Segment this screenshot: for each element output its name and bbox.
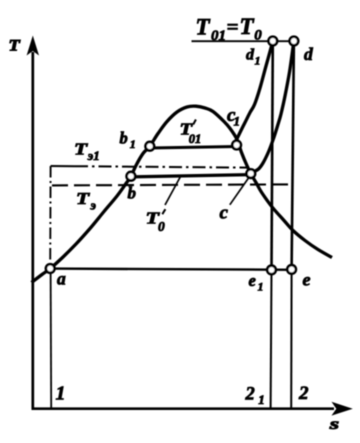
svg-text:1: 1 — [255, 54, 261, 68]
svg-text:a: a — [57, 269, 66, 289]
svg-text:T: T — [74, 141, 89, 159]
svg-text:T: T — [9, 37, 22, 55]
svg-text:T: T — [196, 15, 211, 40]
svg-text:01: 01 — [189, 132, 202, 146]
svg-text:2: 2 — [298, 383, 309, 404]
svg-text:01: 01 — [211, 28, 226, 44]
svg-text:c: c — [220, 203, 229, 224]
svg-text:0: 0 — [158, 219, 165, 234]
svg-text:=: = — [227, 15, 239, 39]
svg-text:1: 1 — [130, 137, 136, 151]
svg-text:1: 1 — [258, 280, 264, 294]
svg-text:э: э — [90, 198, 97, 213]
svg-text:1: 1 — [56, 382, 66, 404]
svg-text:0: 0 — [254, 28, 262, 44]
svg-text:T: T — [76, 190, 91, 208]
svg-text:s: s — [329, 415, 340, 432]
svg-text:T: T — [240, 14, 255, 39]
svg-text:e: e — [303, 269, 311, 289]
svg-text:b: b — [128, 184, 137, 203]
svg-text:b: b — [120, 128, 128, 147]
svg-text:e: e — [249, 271, 256, 290]
svg-text:2: 2 — [245, 384, 255, 404]
svg-text:1: 1 — [234, 114, 241, 129]
svg-text:1: 1 — [258, 392, 265, 407]
svg-text:d: d — [304, 44, 313, 64]
svg-text:э1: э1 — [87, 148, 100, 163]
